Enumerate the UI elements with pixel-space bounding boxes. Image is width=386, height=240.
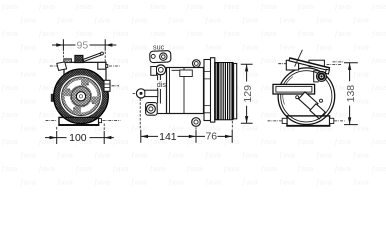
dash-dot right of base [103,119,121,121]
inner circle [71,87,90,106]
bracket bar top edge [290,58,330,68]
bottom left boss bracket [146,103,158,116]
dash-dot left of base [46,119,57,121]
body inner rectangle detail [172,69,180,71]
diagonal connector end [310,104,325,119]
base right ear [99,119,102,123]
discharge bracket [151,67,157,76]
bracket bar [289,58,330,71]
dimension 129 arrows [245,64,248,123]
dash-dot right of side port [112,85,120,87]
hub back plate [211,58,215,122]
left angled tab [57,62,67,71]
dimension 95 line [52,39,116,51]
svg-text:141: 141 [159,131,177,143]
extension dashes for 141/76 [140,99,232,130]
dimension 100 arrows [50,136,112,139]
dimension 95 arrows [56,43,112,46]
left small nub on circle [51,94,56,102]
bottom left boss [147,105,156,114]
disc edge circle [62,77,101,116]
side port inner lines [104,84,110,88]
boss bracket [314,71,319,82]
label plate inner [276,86,312,92]
body left inner line [170,68,185,114]
hub flange plate [204,60,211,121]
extension dashes for 100 [57,124,104,131]
dimension 100 line [45,131,114,144]
lever tip [101,52,104,55]
diagonal connector main [299,92,318,111]
dash-dot right of base [334,120,344,122]
pulley end cap [234,64,237,119]
connector screw right [320,99,323,102]
hub glyph [79,95,82,98]
compressor top body block [64,62,106,86]
top left bolt tab [64,59,72,63]
base mount [287,116,330,126]
lug arm [145,90,158,96]
dimension 138 [344,63,358,125]
hub flange steps [204,72,211,113]
bracket left block [286,60,298,70]
dimension 138 arrows [348,63,351,125]
pulley outer ring [54,69,109,124]
suction plate ear hole [151,54,155,58]
main body [167,68,204,114]
dash-dot left of bracket [278,63,286,65]
top bolt [193,60,201,68]
top cap fitting [75,55,83,62]
dash-dot left of top tab [50,65,57,67]
svg-text:76: 76 [205,131,217,143]
connector screw left [296,96,299,99]
dash-dot left of base [268,120,282,122]
left mounting lug [136,89,145,98]
suction port plate [150,51,171,63]
suction port hole [160,53,167,60]
dash-dot right of bracket [327,64,342,66]
label plate [273,84,315,94]
svg-text:138: 138 [345,85,357,103]
inner casting arc [283,77,293,105]
pulley face disc [61,76,102,117]
dimension 76 arrow [225,135,232,138]
right nub [106,65,108,68]
base left ear [282,118,287,123]
dis label backing [154,80,168,88]
right body extension [98,62,106,69]
inner circle [281,71,332,122]
boss to body line [157,113,167,115]
pulley rib gaps [215,63,217,119]
dimension 141 arrows [141,135,196,138]
ribbed pulley block [214,62,233,120]
boss circle [317,72,327,82]
lever arm [83,53,101,62]
port column lines [158,75,161,104]
watermark tile layer [0,0,386,186]
extension dash top right [333,61,344,63]
clutch slots (4 white arcs) [62,78,100,116]
dimension 141/76 line [141,130,232,143]
svg-text:100: 100 [69,132,87,144]
dash left of lug [133,92,136,94]
side port right [104,80,110,91]
svg-text:suc: suc [153,43,165,52]
base mount [59,117,99,125]
needle line [295,50,303,67]
base right ear [330,118,334,123]
bracket bar end hook [325,69,329,74]
hub center [76,92,85,101]
slot end rivets [87,83,89,85]
svg-text:95: 95 [77,40,89,52]
svg-text:129: 129 [242,85,254,103]
svg-text:dis: dis [157,80,167,89]
dimension 129 [241,64,253,123]
discharge port [156,65,166,75]
extension dashes for 95 [63,52,105,63]
dash-dot right of top nub [109,65,121,67]
body circle [278,68,335,125]
bottom bolt [192,118,201,127]
bracket right rect [309,60,324,66]
